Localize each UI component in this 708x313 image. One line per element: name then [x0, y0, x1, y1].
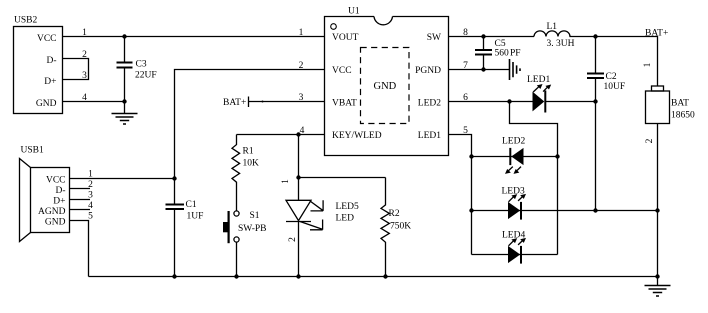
node GND-C3 junction: [122, 99, 126, 103]
switch S1 SW-PB: [223, 211, 267, 243]
wire USB1 pin5 GND down to bottom rail: [70, 212, 94, 277]
svg-text:VCC: VCC: [37, 34, 57, 44]
capacitor C2: [587, 37, 625, 211]
svg-text:1: 1: [299, 28, 304, 38]
node PGND-C5 junction: [481, 67, 485, 71]
svg-text:5: 5: [463, 126, 468, 136]
svg-text:C5: C5: [495, 39, 506, 49]
svg-text:3: 3: [299, 93, 304, 103]
wire S1 to bottom rail: [236, 242, 238, 276]
svg-text:BAT+: BAT+: [223, 98, 246, 108]
svg-text:10K: 10K: [243, 159, 260, 169]
svg-text:2: 2: [82, 50, 87, 60]
node rail battery junction: [655, 274, 659, 278]
wire USB1 pin4 stub: [70, 201, 94, 211]
svg-text:LED1: LED1: [527, 75, 550, 85]
wire USB2 pin4 GND: [63, 93, 125, 103]
svg-text:LED: LED: [336, 214, 355, 224]
wire LED3 row: [472, 210, 658, 212]
svg-text:VCC: VCC: [332, 66, 352, 76]
svg-text:7: 7: [463, 61, 468, 71]
wire U1 PGND pin7: [449, 61, 510, 71]
wire battery to ground rail: [657, 124, 659, 277]
node LED2 row right junction: [555, 154, 559, 158]
svg-text:D-: D-: [46, 56, 56, 66]
LED D1 LED1: [527, 75, 596, 113]
wire U1 LED1 pin5: [449, 126, 472, 255]
svg-text:C3: C3: [136, 60, 147, 70]
svg-text:USB2: USB2: [14, 16, 37, 26]
svg-text:VBAT: VBAT: [332, 99, 357, 109]
svg-text:GND: GND: [36, 99, 57, 109]
svg-text:8: 8: [463, 28, 468, 38]
LED5 light arrow 1: [310, 200, 323, 211]
svg-text:1: 1: [88, 170, 93, 180]
LED5 light arrow 2: [300, 220, 323, 230]
wire USB1 pin1 VCC: [70, 170, 175, 180]
wire LED2 row: [472, 156, 558, 158]
wire junction to R2: [299, 177, 386, 179]
node left rail LED3 junction: [469, 208, 473, 212]
node rail LED5 junction: [296, 274, 300, 278]
svg-text:VCC: VCC: [46, 175, 66, 185]
node pin6 junction: [507, 99, 511, 103]
LED2 light arrow 1: [505, 167, 513, 174]
capacitor C3: [117, 37, 157, 102]
svg-text:D-: D-: [55, 186, 65, 196]
svg-text:560PF: 560PF: [495, 49, 521, 59]
wire U1 SW pin8: [449, 28, 535, 38]
svg-text:3: 3: [82, 71, 87, 81]
svg-text:C2: C2: [606, 72, 617, 82]
svg-text:1UF: 1UF: [187, 212, 204, 222]
connector USB1: [20, 146, 70, 242]
svg-text:22UF: 22UF: [135, 71, 157, 81]
svg-text:10UF: 10UF: [604, 82, 626, 92]
svg-text:2: 2: [88, 180, 93, 190]
LED1 light arrow 2: [543, 85, 551, 92]
svg-text:750K: 750K: [390, 221, 411, 231]
wire U1 KEY/WLED pin4: [237, 126, 325, 136]
svg-text:2: 2: [288, 237, 298, 242]
svg-text:C1: C1: [186, 200, 197, 210]
svg-text:3: 3: [88, 191, 93, 201]
svg-text:LED2: LED2: [502, 136, 525, 146]
node left rail LED2 junction: [469, 154, 473, 158]
LED D2 LED2: [502, 136, 525, 165]
svg-text:3. 3UH: 3. 3UH: [547, 39, 575, 49]
wire USB1 pin3 stub: [70, 191, 94, 201]
svg-text:S1: S1: [250, 211, 260, 221]
inductor L1: [534, 22, 596, 49]
ground bottom right: [645, 277, 671, 297]
wire bottom ground rail: [89, 276, 658, 278]
wire pin6 bypass down to LED rail: [510, 102, 558, 255]
LED D3 LED3: [502, 186, 525, 219]
svg-text:1: 1: [82, 28, 87, 38]
svg-text:5: 5: [88, 212, 93, 222]
svg-text:18650: 18650: [671, 111, 695, 121]
svg-text:LED3: LED3: [502, 186, 525, 196]
svg-text:2: 2: [645, 138, 655, 143]
node L1-C2 junction: [593, 34, 597, 38]
svg-text:U1: U1: [348, 7, 360, 17]
net label BAT+ at VBAT: [223, 93, 325, 108]
svg-text:LED5: LED5: [336, 202, 359, 212]
svg-text:GND: GND: [374, 81, 397, 92]
svg-text:USB1: USB1: [21, 146, 44, 156]
wire USB1 pin2 stub: [70, 180, 94, 190]
resistor R1: [232, 135, 259, 211]
node rail C1 junction: [172, 274, 176, 278]
capacitor C5: [475, 37, 521, 70]
node USB1 VCC junction: [172, 176, 176, 180]
wire BAT+ to battery: [596, 28, 669, 86]
svg-text:BAT: BAT: [671, 98, 689, 108]
svg-text:VOUT: VOUT: [332, 33, 359, 43]
LED3 light arrow 1: [509, 194, 518, 202]
svg-text:LED1: LED1: [418, 131, 441, 141]
capacitor C1: [166, 200, 204, 277]
wire U1 LED2 pin6: [449, 93, 533, 103]
node rail S1 junction: [234, 274, 238, 278]
svg-text:2: 2: [299, 61, 304, 71]
svg-text:R2: R2: [389, 209, 400, 219]
ground below C3: [112, 102, 138, 125]
svg-text:PGND: PGND: [415, 66, 441, 76]
svg-text:1: 1: [281, 179, 291, 184]
svg-text:KEY/WLED: KEY/WLED: [332, 131, 382, 141]
LED1 light arrow 1: [533, 84, 542, 92]
LED D5 LED5: [286, 200, 359, 276]
node LED5/R2 junction: [296, 175, 300, 179]
svg-text:D+: D+: [53, 196, 65, 206]
svg-text:6: 6: [463, 93, 468, 103]
wire LED4 row: [472, 254, 558, 256]
svg-text:D+: D+: [44, 77, 56, 87]
IC U1: [325, 7, 449, 156]
battery BAT 18650: [646, 86, 696, 124]
svg-text:4: 4: [88, 201, 93, 211]
node SW-C5 junction: [481, 34, 485, 38]
node LED3-battery line junction: [655, 208, 659, 212]
LED D4 LED4: [502, 230, 525, 263]
LED2 light arrow 2: [514, 167, 522, 174]
wire U1 VCC pin2: [175, 61, 325, 204]
svg-text:4: 4: [82, 93, 87, 103]
LED3 light arrow 2: [518, 194, 526, 201]
node LED1-C2 junction: [593, 99, 597, 103]
svg-text:LED2: LED2: [418, 99, 441, 109]
LED4 light arrow 1: [509, 238, 518, 246]
dashed internal GND box of U1: [361, 48, 410, 124]
connector USB2: [14, 16, 63, 114]
resistor R2: [381, 178, 411, 277]
svg-text:AGND: AGND: [38, 207, 66, 217]
node VCC-C3 junction: [122, 34, 126, 38]
svg-text:R1: R1: [243, 147, 254, 157]
node LED3-C2 line junction: [593, 208, 597, 212]
wire LED5 branch from KEY/WLED: [298, 135, 300, 201]
node rail R2 junction: [383, 274, 387, 278]
svg-text:SW-PB: SW-PB: [238, 224, 267, 234]
svg-text:GND: GND: [45, 217, 66, 227]
LED4 light arrow 2: [518, 238, 526, 245]
ground at PGND sideways: [510, 59, 521, 80]
wire USB2 pin1 VCC to U1 VOUT: [63, 28, 325, 38]
wire USB2 pin2 to pin3 loop: [63, 50, 89, 81]
node KEY/WLED junction to LED5: [296, 132, 300, 136]
svg-text:1: 1: [643, 62, 653, 67]
svg-text:SW: SW: [427, 33, 441, 43]
